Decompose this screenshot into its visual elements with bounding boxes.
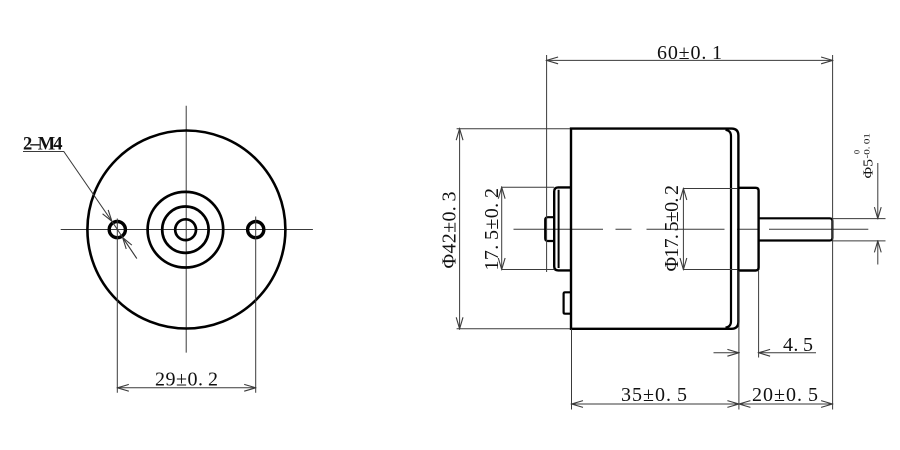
extension line right (shaft end) (832, 55, 834, 410)
extension line bottom (683, 269, 737, 271)
front flange plate (554, 187, 571, 270)
dimension line 17.5 (501, 187, 503, 269)
mounting hole left M4 (109, 222, 125, 238)
extension line top (457, 128, 570, 130)
extension line left (bushing face) (546, 55, 548, 272)
flange inner line (558, 190, 560, 268)
svg-text:Φ17. 5±0. 2: Φ17. 5±0. 2 (661, 185, 683, 271)
svg-text:29±0. 2: 29±0. 2 (155, 368, 218, 390)
shaft circle (175, 219, 196, 240)
terminal tab (564, 292, 571, 313)
bearing boss circle (148, 192, 224, 268)
svg-text:17. 5±0. 2: 17. 5±0. 2 (481, 188, 503, 270)
svg-text:20±0. 5: 20±0. 5 (752, 384, 818, 406)
mounting hole right M4 (248, 222, 264, 238)
svg-text:-0. 01: -0. 01 (861, 133, 871, 159)
svg-text:Φ42±0. 3: Φ42±0. 3 (439, 192, 461, 269)
shaft (759, 218, 833, 240)
dimension line Φ17.5 (682, 189, 684, 270)
dimension line 35 (572, 403, 739, 405)
svg-text:60±0. 1: 60±0. 1 (657, 42, 722, 64)
extension line bottom (832, 240, 885, 242)
extension line bottom (502, 269, 555, 271)
extension line bottom (457, 328, 570, 330)
svg-text:0: 0 (852, 150, 861, 154)
lower arrow line (877, 241, 879, 265)
rear bearing boss (738, 188, 758, 271)
dash-dot centerline (514, 228, 869, 230)
upper arrow line (877, 163, 879, 219)
vertical centerline (185, 106, 187, 353)
left hole centerline / extension line (116, 219, 118, 393)
hub circle (162, 207, 208, 253)
extension line top (683, 188, 737, 190)
motor can body (571, 129, 738, 329)
horizontal centerline (61, 229, 313, 231)
text Φ5 with tolerance (852, 133, 876, 179)
svg-text:Φ5: Φ5 (861, 159, 876, 179)
dimension 29±0.2 line (117, 387, 255, 389)
dimension line 20 (739, 403, 833, 405)
dimension line 60 (547, 59, 833, 61)
front bushing (545, 217, 554, 241)
can seam inner line (726, 130, 732, 328)
extension line boss right (758, 271, 760, 358)
dimension line Φ42 (459, 129, 461, 329)
extension line top (832, 218, 885, 220)
extension line top (502, 186, 554, 188)
svg-text:4. 5: 4. 5 (783, 334, 813, 356)
extension line body left (571, 329, 573, 410)
leader line 2-M4 (23, 152, 112, 222)
left arrow line (714, 352, 739, 354)
leader opposite arrow (123, 238, 137, 259)
svg-text:35±0. 5: 35±0. 5 (621, 384, 687, 406)
motor body outline circle Φ42 (87, 131, 285, 329)
right arrow line (759, 352, 816, 354)
right hole centerline / extension line (255, 217, 257, 393)
extension line body right (738, 271, 740, 410)
leader through hole (112, 221, 137, 258)
